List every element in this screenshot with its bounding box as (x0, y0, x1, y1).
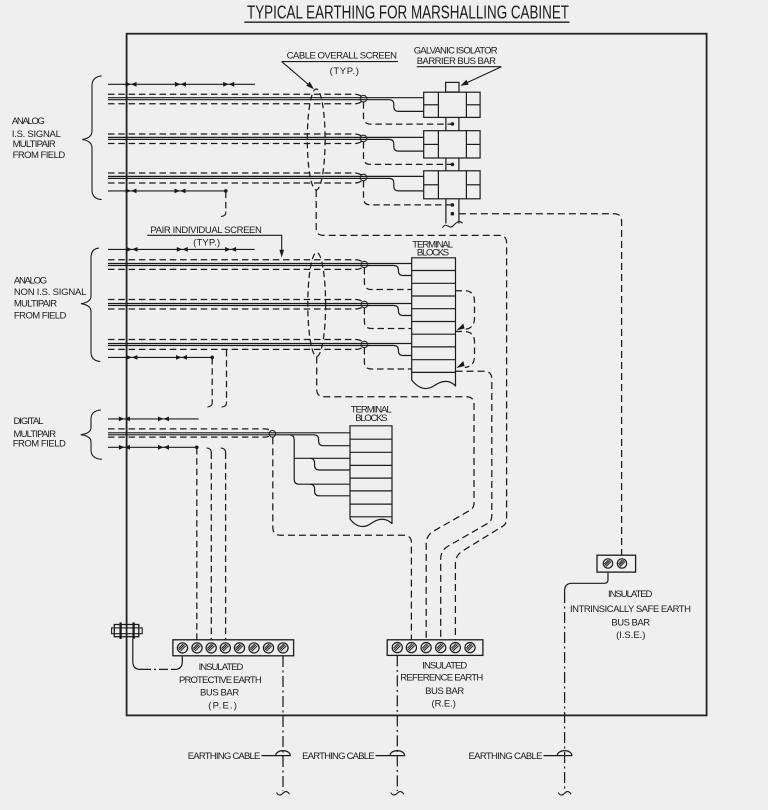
wire cable edge line bottom (group2) (108, 356, 212, 358)
bus bar break squiggle (443, 222, 463, 228)
svg-text:ANALOG: ANALOG (14, 276, 47, 287)
armour drain dashed drop (group1) (225, 192, 227, 212)
cable marks on top edge line (119, 417, 130, 422)
open hook end (221, 212, 226, 217)
cable overall screen ellipse (group1) (307, 89, 325, 190)
wire cable edge line top (group1) (108, 83, 255, 85)
pair 1 screen gather circle (360, 95, 367, 102)
label PAIR INDIVIDUAL SCREEN (TYP.) (150, 225, 262, 248)
terminal block (middle) break wave (412, 380, 456, 388)
pair 2 screen dashed upper (108, 300, 363, 303)
pair 3 screen dashed lower (turns down as drain) (108, 346, 363, 349)
junction dot bus/screen pair1 (451, 122, 455, 126)
label INSULATED PROTECTIVE EARTH BUS BAR (P.E.) (179, 662, 262, 711)
label DIGITAL MULTIPAIR FROM FIELD (13, 416, 66, 449)
svg-text:FROM FIELD: FROM FIELD (13, 150, 66, 161)
svg-text:EARTHING CABLE: EARTHING CABLE (469, 751, 543, 762)
svg-text:(R.E.): (R.E.) (432, 699, 456, 710)
digital screen dashed lower (108, 435, 271, 437)
pair 1 screen dashed upper (108, 260, 363, 263)
terminal block (digital) break wave (350, 519, 392, 527)
pair 2 screen dashed upper (108, 134, 362, 137)
digital pair2 wire upper (to cell3) (294, 457, 350, 459)
digital screen gather circle (269, 431, 276, 438)
svg-text:ANALOG: ANALOG (12, 116, 45, 127)
I.S.E. terminals (603, 559, 612, 568)
pair 1 screen gather circle (361, 261, 368, 268)
brace group 2 (81, 248, 100, 361)
isolator bus bar vertical strip (segments between isolators) (446, 117, 459, 223)
svg-text:(I.S.E.): (I.S.E.) (616, 630, 645, 641)
pair 3 wire upper (108, 343, 412, 345)
I.S.E. earthing cable (564, 592, 566, 791)
pair 2 screen gather circle (361, 301, 368, 308)
pair 1 wire lower (steps to terminal) (108, 266, 412, 276)
pair 2 wire upper (108, 136, 424, 138)
svg-text:BUS BAR: BUS BAR (200, 687, 239, 698)
screen link jumper cell6 to cell9 (456, 332, 475, 368)
cable marks on bottom edge line (119, 445, 130, 450)
I.S.E. bus bar body (597, 555, 636, 572)
svg-text:BLOCKS: BLOCKS (355, 413, 387, 424)
screen link jumper cell3 to cell6 (456, 291, 475, 330)
svg-text:INSULATED: INSULATED (608, 589, 653, 600)
isolator barrier U1 (424, 92, 480, 117)
leader to overall screen (282, 62, 313, 88)
svg-text:FROM FIELD: FROM FIELD (14, 310, 67, 321)
svg-text:REFERENCE EARTH: REFERENCE EARTH (400, 672, 483, 683)
terminal block (digital) body (350, 426, 392, 524)
digital pair3 wire lower (steps to cell6) (310, 484, 350, 496)
svg-text:INSULATED: INSULATED (199, 662, 244, 673)
brace group 3 (81, 410, 102, 459)
cable overall screen ellipse (group2) (308, 253, 326, 357)
wire cable edge line top (group3) (108, 418, 199, 420)
R.E. cable end squiggle (391, 792, 404, 796)
screen drain hook + dashed drop C to P.E. bar (221, 448, 226, 453)
leader arrow to pair screen (279, 250, 284, 258)
pair 2 wire lower (108, 306, 412, 316)
group1 overall screen dashed route to R.E. bar (via right side) (316, 190, 506, 640)
armour drain dashed drop to P.E. bar (196, 448, 198, 640)
svg-text:BARRIER BUS BAR: BARRIER BUS BAR (417, 56, 496, 67)
isolator barrier U3 (424, 171, 480, 199)
svg-text:FROM FIELD: FROM FIELD (13, 439, 66, 450)
svg-text:MULTIPAIR: MULTIPAIR (13, 139, 56, 150)
junction dot bus/screen pair2 (451, 163, 455, 167)
junction dot group3 armour drain (195, 446, 199, 450)
screen drain dashed drop B (group2) (226, 350, 228, 402)
P.E. bus bar body (173, 640, 294, 656)
label INSULATED REFERENCE EARTH BUS BAR (R.E.) (400, 661, 483, 710)
pair 3 screen gather circle (361, 341, 368, 348)
pair 1 screen dashed lower (108, 266, 363, 269)
pair 1 screen pigtail to isolator bus (364, 102, 452, 124)
pair 1 screen dashed lower (108, 101, 362, 104)
svg-text:(P.E.): (P.E.) (208, 700, 237, 711)
R.E. earthing cable (396, 655, 398, 791)
junction dot group2 armour drain (210, 356, 214, 360)
group2 overall screen dashed route to R.E. bar (317, 357, 474, 640)
pair 3 screen pigtail to terminal block (364, 348, 411, 369)
group2 pair screens dashed route to R.E. bar (441, 371, 492, 640)
pair 3 wire lower (108, 178, 424, 191)
pair 2 screen pigtail to isolator bus (364, 142, 452, 164)
cable marks on top edge line (127, 247, 138, 252)
svg-text:INTRINSICALLY SAFE EARTH: INTRINSICALLY SAFE EARTH (570, 604, 691, 615)
pair 3 wire upper (108, 175, 424, 177)
label CABLE OVERALL SCREEN (TYP.) (287, 51, 398, 77)
pair 2 screen gather circle (360, 135, 367, 142)
label INSULATED INTRINSICALLY SAFE EARTH BUS BAR (I.S.E.) (570, 589, 691, 641)
pair 2 wire lower (108, 139, 424, 151)
svg-text:GALVANIC ISOLATOR: GALVANIC ISOLATOR (414, 46, 498, 57)
pair 3 screen dashed upper (108, 340, 363, 343)
pair 2 screen pigtail to terminal block (364, 308, 411, 329)
terminal block (middle) body (412, 258, 456, 387)
digital pairs branch vertical (290, 435, 351, 484)
label ANALOG I.S. SIGNAL MULTIPAIR FROM FIELD (12, 116, 65, 161)
cable marks on bottom edge line (126, 189, 137, 194)
svg-text:BUS BAR: BUS BAR (425, 686, 464, 697)
digital pair2 wire lower (steps to cell4) (310, 458, 350, 470)
R.E. terminals (392, 643, 402, 653)
pair 3 screen pigtail to isolator bus (364, 181, 452, 205)
P.E. earthing cable (282, 656, 284, 791)
pair 3 screen dashed upper (108, 173, 362, 176)
digital screen dashed upper (108, 429, 271, 431)
pair 3 wire lower (108, 346, 412, 356)
junction dot group1 armour drain (224, 189, 228, 193)
label TERMINAL BLOCKS (digital) (351, 405, 392, 424)
pair 2 screen dashed lower (108, 306, 363, 309)
junction dot bus to I.S.E. (451, 212, 455, 216)
svg-text:(TYP.): (TYP.) (193, 237, 220, 248)
digital pair wire lower (steps to cell2) (108, 435, 350, 446)
marshalling cabinet enclosure border (127, 34, 707, 716)
label GALVANIC ISOLATOR BARRIER BUS BAR (414, 46, 498, 68)
I.S.E. cable end squiggle (558, 792, 571, 796)
P.E. cable end squiggle (277, 792, 290, 796)
leader to isolator bus bar (462, 67, 501, 85)
label ANALOG NON I.S. SIGNAL MULTIPAIR FROM FIELD (14, 276, 87, 322)
pair 2 wire upper (108, 303, 412, 305)
svg-text:NON I.S. SIGNAL: NON I.S. SIGNAL (14, 287, 87, 298)
pair 3 screen gather circle (360, 174, 367, 181)
cable marks on top edge line (126, 82, 137, 87)
label TERMINAL BLOCKS (middle) (412, 239, 453, 258)
bolt bonding wire to P.E. bar (133, 639, 142, 669)
svg-text:DIGITAL: DIGITAL (14, 416, 44, 427)
svg-text:(TYP.): (TYP.) (330, 66, 359, 77)
dashed link isolator bus to I.S.E. bus bar (459, 214, 622, 556)
junction dot bus/screen pair3 (451, 203, 455, 207)
isolator bus bar top terminal box (446, 82, 459, 92)
svg-text:PROTECTIVE EARTH: PROTECTIVE EARTH (179, 675, 262, 686)
cable marks on bottom edge line (126, 355, 137, 360)
pair 1 wire upper (108, 97, 424, 99)
isolator barrier U2 (424, 131, 480, 158)
wire cable edge line bottom (group1) (108, 190, 226, 192)
digital screens dashed route to R.E. bar (273, 437, 412, 639)
pair 1 screen dashed upper (108, 94, 362, 97)
cabinet earth stud/bolt through wall (112, 622, 143, 639)
pair 1 screen pigtail to terminal block (364, 268, 411, 290)
pair 1 wire lower (steps to isolator lower terminal) (108, 100, 424, 112)
svg-text:PAIR INDIVIDUAL SCREEN: PAIR INDIVIDUAL SCREEN (150, 225, 262, 236)
screen drain hook + dashed drop B to P.E. bar (207, 448, 212, 453)
svg-text:TYPICAL EARTHING FOR MARSHALLI: TYPICAL EARTHING FOR MARSHALLING CABINET (247, 2, 569, 22)
svg-text:EARTHING CABLE: EARTHING CABLE (188, 751, 261, 762)
svg-text:BUS BAR: BUS BAR (611, 617, 650, 628)
pair 2 screen dashed lower (108, 141, 362, 144)
digital pair wire upper (to terminal cell1) (108, 432, 350, 434)
P.E. terminals (177, 643, 187, 653)
I.S.E. bonding wire to earthing cable (565, 572, 608, 592)
svg-text:INSULATED: INSULATED (422, 661, 467, 672)
wire cable edge line top (group2) (108, 248, 255, 250)
pair 1 wire upper (108, 263, 412, 265)
R.E. bus bar body (387, 640, 483, 656)
wire cable edge line bottom (group3) (108, 446, 197, 448)
svg-text:BLOCKS: BLOCKS (417, 248, 449, 259)
svg-text:EARTHING CABLE: EARTHING CABLE (302, 751, 375, 762)
brace group 1 (82, 76, 102, 200)
pair 3 screen dashed lower (108, 180, 362, 183)
svg-text:CABLE OVERALL SCREEN: CABLE OVERALL SCREEN (287, 51, 398, 62)
svg-text:MULTIPAIR: MULTIPAIR (14, 299, 57, 310)
armour drain dashed drop A (group2) (211, 358, 213, 402)
title TYPICAL EARTHING FOR MARSHALLING CABINET (244, 2, 569, 22)
